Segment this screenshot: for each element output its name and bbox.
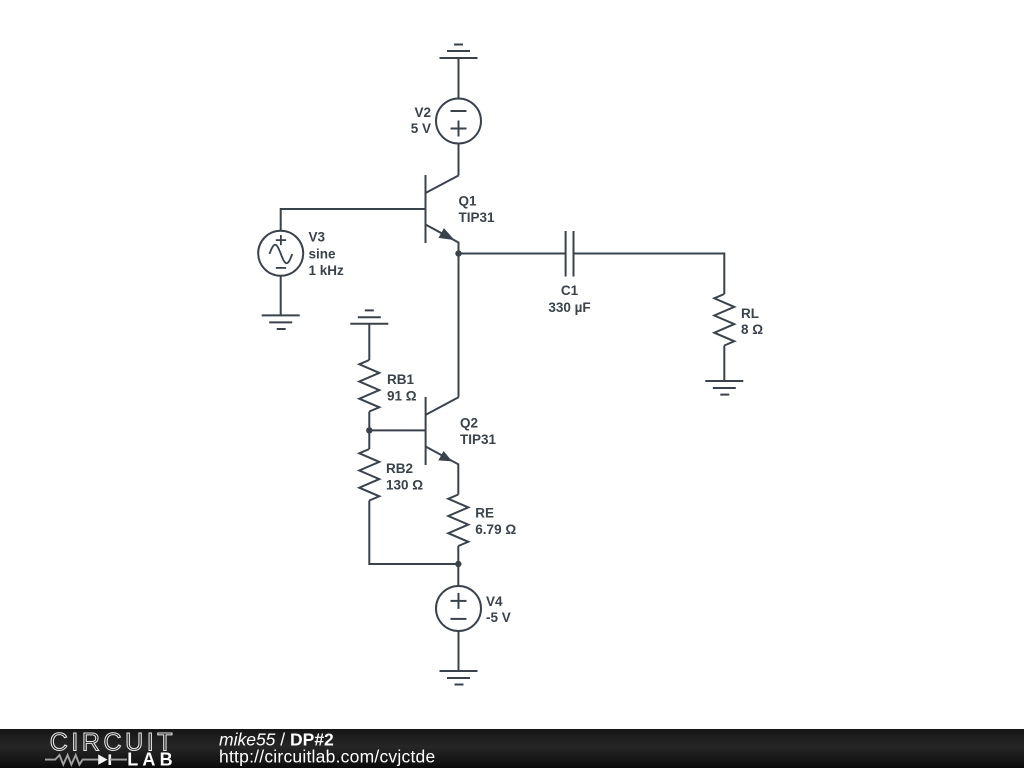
transistor Q2	[426, 397, 459, 495]
node: Q1 emitter junction	[455, 250, 461, 256]
svg-text:V3: V3	[309, 230, 326, 245]
svg-text:1 kHz: 1 kHz	[309, 263, 345, 278]
ground (below V4)	[440, 671, 478, 685]
svg-text:RB2: RB2	[386, 461, 413, 476]
svg-text:RE: RE	[475, 506, 494, 521]
wire: node to V4	[457, 564, 459, 586]
svg-text:Q1: Q1	[459, 194, 478, 209]
wire: RL to ground	[723, 346, 725, 382]
wire: RB2 to bottom rail	[369, 501, 458, 565]
svg-text:8 Ω: 8 Ω	[741, 322, 763, 337]
label RB2 130 Ω	[386, 461, 423, 493]
wire: RE to node	[457, 546, 459, 564]
svg-text:sine: sine	[309, 246, 337, 261]
svg-text:91 Ω: 91 Ω	[387, 389, 417, 404]
svg-text:TIP31: TIP31	[460, 432, 497, 447]
svg-text:330 µF: 330 µF	[548, 300, 590, 315]
logo resistor-diode symbol	[45, 754, 127, 765]
wire: node to C1	[459, 253, 566, 255]
svg-text:Q2: Q2	[460, 416, 478, 431]
transistor Q1	[426, 175, 459, 254]
label V2 5 V	[411, 105, 431, 136]
wire: C1 to RL	[574, 254, 725, 295]
wire: Q2 base	[369, 429, 425, 431]
label Q2 TIP31	[460, 416, 497, 448]
label Q1 TIP31	[459, 194, 496, 226]
node: RB1/RB2/base junction	[366, 427, 372, 433]
label RE 6.79 Ω	[475, 506, 516, 538]
label RL 8 Ω	[741, 306, 763, 337]
resistor RL	[714, 294, 734, 346]
ground (below V3)	[262, 315, 300, 329]
ground (inverted, above RB1)	[350, 310, 388, 323]
svg-text:-5 V: -5 V	[486, 610, 511, 625]
wire: Q1 base	[281, 209, 426, 230]
wire: V2 to Q1 collector	[458, 144, 460, 176]
wire: V4 to ground	[458, 631, 460, 671]
label V3 sine 1 kHz	[309, 230, 345, 279]
svg-text:6.79 Ω: 6.79 Ω	[475, 522, 516, 537]
voltage source V3 (sine)	[258, 231, 303, 276]
svg-text:http://circuitlab.com/cvjctde: http://circuitlab.com/cvjctde	[219, 747, 435, 767]
svg-text:5 V: 5 V	[411, 121, 431, 136]
resistor RB2	[359, 449, 379, 501]
node: RE/RB2/V4 junction	[455, 561, 461, 567]
resistor RB1	[359, 360, 379, 412]
footer bar	[0, 729, 1024, 768]
svg-text:V2: V2	[414, 105, 431, 120]
label C1 330 µF	[548, 283, 590, 315]
svg-text:130 Ω: 130 Ω	[386, 478, 423, 493]
voltage source V2	[436, 99, 481, 144]
wire: top ground to V2	[458, 58, 460, 99]
capacitor C1	[566, 231, 574, 277]
svg-text:TIP31: TIP31	[459, 210, 496, 225]
wire: RB2 from node	[368, 430, 370, 449]
wire: V3 to ground	[280, 276, 282, 315]
svg-text:RL: RL	[741, 306, 759, 321]
svg-text:C1: C1	[561, 283, 579, 298]
svg-text:V4: V4	[486, 594, 503, 609]
label RB1 91 Ω	[387, 372, 417, 404]
wire: ground to RB1	[368, 324, 370, 360]
svg-text:LAB: LAB	[127, 750, 177, 768]
svg-text:RB1: RB1	[387, 372, 414, 387]
ground (below RL)	[705, 381, 743, 395]
wire: RB1 to node	[368, 412, 370, 431]
voltage source V4	[436, 586, 481, 631]
ground (inverted, above V2)	[440, 45, 478, 59]
wire: node down to Q2 collector	[458, 254, 460, 398]
resistor RE	[448, 495, 468, 547]
label V4 -5 V	[486, 594, 511, 625]
